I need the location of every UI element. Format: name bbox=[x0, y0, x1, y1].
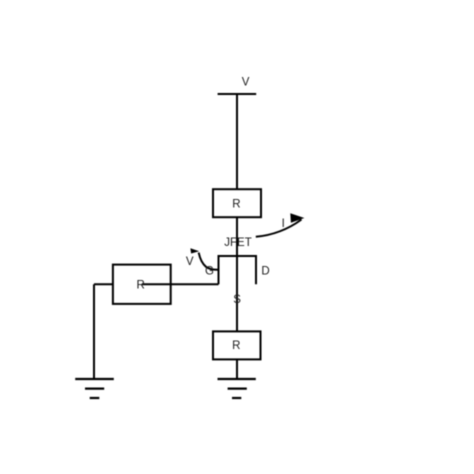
svg-text:V: V bbox=[242, 76, 250, 88]
svg-text:R: R bbox=[232, 199, 240, 211]
svg-text:G: G bbox=[205, 266, 214, 278]
svg-text:R: R bbox=[136, 280, 144, 292]
svg-text:I: I bbox=[282, 218, 285, 230]
svg-text:JFET: JFET bbox=[224, 237, 251, 249]
svg-text:V: V bbox=[186, 256, 194, 268]
svg-text:R: R bbox=[232, 340, 240, 352]
svg-text:D: D bbox=[261, 265, 269, 277]
svg-text:S: S bbox=[233, 294, 241, 306]
